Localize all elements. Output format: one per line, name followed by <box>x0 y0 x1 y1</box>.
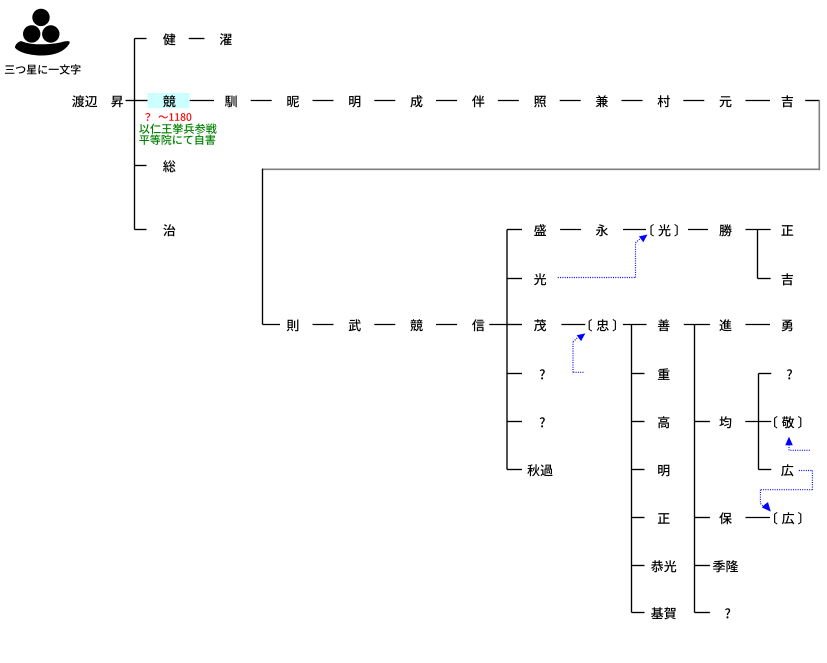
person 渡辺昇 <box>72 95 123 107</box>
note: dates of 競 <box>145 113 191 121</box>
person 高 (child of 〔忠〕) <box>658 416 669 428</box>
person 季隆 (child of 善) <box>713 560 738 572</box>
wire down to 則 <box>263 169 281 325</box>
person 茂 (child of 信) <box>534 319 546 331</box>
wire 〔光〕-勝 <box>688 229 708 231</box>
wire 進-勇 <box>746 324 771 326</box>
person 〔忠〕 <box>589 319 616 332</box>
wire 競-信 (gen2) <box>436 324 457 326</box>
person 兼 <box>596 95 608 107</box>
person 正 (child of 勝) <box>781 225 793 236</box>
highlight box for 競 <box>148 93 190 108</box>
family crest: ichimonji bar <box>15 41 70 55</box>
person 競 (gen2) <box>410 319 422 331</box>
wire after 吉 <box>805 100 819 102</box>
person ? (child of 信) <box>540 369 545 379</box>
person ? (child of 信) <box>540 417 545 427</box>
person 恭光 (child of 〔忠〕) <box>651 560 676 572</box>
wire 明-成 <box>374 100 395 102</box>
person 昵 <box>287 96 299 107</box>
long wire from 吉 down-left to 則 (gray) <box>262 101 820 171</box>
person 吉 (child of 勝) <box>782 273 793 285</box>
person 馴 <box>225 95 237 107</box>
wire 元-吉 <box>746 100 771 102</box>
person 〔広〕 <box>774 512 801 525</box>
person 治 <box>163 224 175 236</box>
person 善 (child of 〔忠〕) <box>658 319 670 331</box>
person 盛 (child of 信) <box>534 224 546 236</box>
wire 保-〔広〕 <box>746 517 771 519</box>
person 〔敬〕 <box>774 416 801 429</box>
person 吉 <box>782 95 793 107</box>
crest label <box>5 64 81 74</box>
adoption arrow into 〔忠〕 <box>573 333 585 372</box>
person 則 (gen2) <box>287 319 299 331</box>
bracket: children of 〔忠〕 <box>623 325 647 613</box>
wire 健-濯 <box>189 38 205 40</box>
wire 武-競 (gen2) <box>374 324 395 326</box>
bracket: children of 均 <box>745 374 771 470</box>
wire 昵-明 <box>313 100 334 102</box>
wire 則-武 (gen2) <box>313 324 334 326</box>
wire 伴-照 <box>498 100 519 102</box>
wire 兼-村 <box>622 100 643 102</box>
person 永 <box>596 224 608 236</box>
person 勇 <box>782 320 793 332</box>
person 明 (child of 〔忠〕) <box>658 465 669 477</box>
wire 永-〔光〕 <box>623 229 646 231</box>
wire 村-元 <box>683 100 704 102</box>
wire 渡辺昇 to bracket <box>126 100 135 102</box>
person 信 (gen2) <box>472 319 484 331</box>
person 武 (gen2) <box>349 319 361 331</box>
person 広 <box>781 464 793 476</box>
person 正 (child of 〔忠〕) <box>658 513 670 524</box>
person 勝 <box>719 224 731 236</box>
note: history line1 <box>139 123 217 133</box>
person 濯 <box>220 33 232 45</box>
bracket: children of 渡辺昇 <box>135 39 148 230</box>
person 均 (child of 善) <box>719 416 731 428</box>
wire 競-馴 <box>190 100 214 102</box>
bracket: children of 善 <box>684 325 710 613</box>
person 秋過 (child of 信) <box>527 464 552 476</box>
bracket: children of 勝 <box>746 230 771 279</box>
person ? (child of 善) <box>725 608 730 618</box>
wire 成-伴 <box>436 100 457 102</box>
adoption arrow into 〔敬〕 <box>785 437 810 451</box>
person 重 (child of 〔忠〕) <box>658 368 670 380</box>
person ? (child of 均) <box>787 369 792 379</box>
family crest: three stars (mitsuboshi) <box>23 9 60 43</box>
wire 盛-永 <box>560 229 581 231</box>
adoption arrow 広 to 〔広〕 <box>760 471 812 512</box>
person 村 <box>658 95 670 107</box>
person 基賀 (child of 〔忠〕) <box>651 607 676 619</box>
person 成 <box>410 95 422 107</box>
adoption arrow 光 to 〔光〕 <box>558 235 648 278</box>
person 照 <box>534 96 546 108</box>
bracket: children of 信 <box>489 230 522 470</box>
wire 照-兼 <box>560 100 581 102</box>
wire 馴-昵 <box>251 100 272 102</box>
person 競 (Watanabe Kiou) <box>163 95 175 107</box>
person 総 <box>163 160 175 172</box>
person 元 <box>720 96 732 107</box>
note: history line2 <box>139 135 215 145</box>
person 〔光〕 <box>650 224 677 237</box>
person 光 (child of 信) <box>534 273 546 285</box>
person 保 (child of 善) <box>719 512 732 524</box>
person 健 <box>163 33 175 45</box>
person 伴 <box>472 95 484 107</box>
wire 茂-〔忠〕 <box>561 324 585 326</box>
person 進 (child of 善) <box>719 319 731 331</box>
person 明 <box>349 96 360 108</box>
